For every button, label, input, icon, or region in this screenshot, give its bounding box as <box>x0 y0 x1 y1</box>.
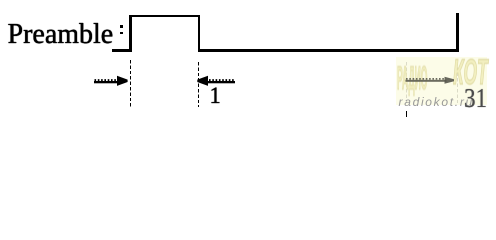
colon upper dot <box>120 25 123 28</box>
wire: lead-in low segment <box>112 49 131 51</box>
wire: low segment <box>198 49 459 51</box>
label "Preamble" <box>8 19 114 51</box>
arrow 2 (points left to falling edge) <box>195 74 237 88</box>
label "31" page number <box>464 82 487 114</box>
arrow 1 (points right to rising edge) <box>92 74 130 88</box>
colon lower dot <box>120 32 123 35</box>
wire: rising edge 1 <box>129 15 131 51</box>
watermark "КОТ" <box>453 52 488 93</box>
node: dashed line at falling edge <box>198 62 199 107</box>
watermark "radiokot.ru" <box>399 95 474 109</box>
watermark badge background <box>396 57 487 105</box>
wire: rising edge 2 <box>456 13 458 52</box>
watermark "Радио" <box>397 59 427 98</box>
node: dashed line at arrow-3 tail (under badge) <box>406 62 407 105</box>
node: dashed line at rising edge 2 (under badge) <box>457 62 458 105</box>
node: dashed line stub below badge <box>406 111 408 117</box>
wire: high segment <box>129 15 200 17</box>
wire: falling edge <box>198 15 200 51</box>
arrow 3 (points right to rising edge 2) <box>404 73 458 87</box>
node: dashed line at rising edge 1 <box>130 60 131 108</box>
label "1" <box>209 83 221 109</box>
